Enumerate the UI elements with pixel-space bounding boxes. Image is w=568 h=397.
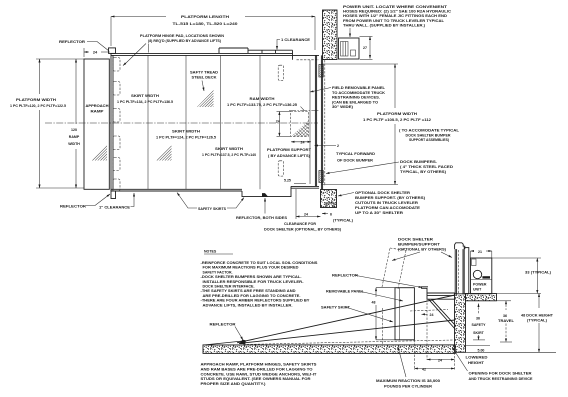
svg-text:CLEARANCE FOR: CLEARANCE FOR xyxy=(284,222,316,226)
power unit (plan) xyxy=(339,38,360,59)
dimension: 6 bottom right xyxy=(322,213,353,223)
svg-text:DOCK SHELTER INTERFACE.: DOCK SHELTER INTERFACE. xyxy=(203,285,255,289)
dock bumper beam (section) xyxy=(410,287,456,330)
label: reflector (section left) xyxy=(210,323,244,341)
svg-text:ADVANCE LIFTS, INSTALLED BY IN: ADVANCE LIFTS, INSTALLED BY INSTALLER. xyxy=(203,303,293,307)
svg-text:FOR MAXIMUM REACTIONS PLUS YOU: FOR MAXIMUM REACTIONS PLUS YOUR DESIRED xyxy=(203,266,299,270)
svg-text:CONCRETE. USE RAWL STUD WEDGE: CONCRETE. USE RAWL STUD WEDGE ANCHORS, W… xyxy=(201,372,318,376)
dimension: 27 power unit xyxy=(360,37,373,60)
note: optional dock shelter bumper support xyxy=(338,191,425,215)
svg-text:24: 24 xyxy=(304,213,308,217)
svg-text:1 CLEARANCE: 1 CLEARANCE xyxy=(281,38,311,42)
svg-text:24: 24 xyxy=(276,120,280,124)
hatch: platform support patch xyxy=(292,121,308,136)
shelter support step below wall xyxy=(326,203,334,208)
svg-text:POUNDS PER CYLINDER: POUNDS PER CYLINDER xyxy=(384,384,432,388)
label: reflector top-left xyxy=(59,39,109,51)
svg-text:LOWERED: LOWERED xyxy=(466,356,489,360)
svg-text:OF DOCK BUMPER: OF DOCK BUMPER xyxy=(337,159,373,163)
svg-text:BUMPER SUPPORT. (BY OTHERS): BUMPER SUPPORT. (BY OTHERS) xyxy=(355,196,425,200)
internal extension lines (skirt/ram widths) xyxy=(148,55,260,189)
svg-text:STUDS OR EQUIVALENT. (SEE OWNE: STUDS OR EQUIVALENT. (SEE OWNERS MANUAL … xyxy=(201,377,311,381)
platform deck outline: left edge xyxy=(111,53,113,191)
dimension: 36 travel xyxy=(497,301,515,342)
label: safty tread steel deck xyxy=(190,71,218,92)
wall section bottom (plan) xyxy=(321,190,337,208)
svg-text:PLATFORM WIDTH: PLATFORM WIDTH xyxy=(16,98,57,102)
svg-text:24: 24 xyxy=(301,141,305,145)
svg-text:CUTOUTS IN TRUCK LEVELER: CUTOUTS IN TRUCK LEVELER xyxy=(355,201,419,205)
reflector blob on ramp tip xyxy=(240,340,247,345)
note: power unit location xyxy=(343,5,452,37)
platform raised position (section) xyxy=(237,295,455,343)
svg-text:TO ACCOMMODATE TRUCK: TO ACCOMMODATE TRUCK xyxy=(332,91,385,95)
dimension text: skirt width middle xyxy=(156,130,216,140)
svg-text:42: 42 xyxy=(422,368,426,372)
svg-text:(OPTIONAL BY OTHERS): (OPTIONAL BY OTHERS) xyxy=(398,248,446,252)
svg-text:( 4" THICK STEEL FACED: ( 4" THICK STEEL FACED xyxy=(400,165,454,169)
reflector box bottom-left corner xyxy=(111,191,116,199)
label: platform support xyxy=(267,148,312,158)
svg-text:FROM POWER UNIT TO TRUCK LEVEL: FROM POWER UNIT TO TRUCK LEVELER TYPICAL xyxy=(343,19,445,23)
svg-text:OPENING FOR DOCK SHELTER: OPENING FOR DOCK SHELTER xyxy=(469,372,533,376)
label: reflector both sides xyxy=(236,198,288,220)
label: dock bumpers xyxy=(326,160,454,174)
svg-text:( TO ACCOMODATE TYPICAL: ( TO ACCOMODATE TYPICAL xyxy=(399,129,460,133)
svg-text:DOCK BUMPERS.: DOCK BUMPERS. xyxy=(400,160,437,164)
platform deck outline: bottom edge with safety skirt step xyxy=(111,186,319,196)
svg-text:36: 36 xyxy=(476,317,480,321)
dimension: 24 approach ramp width top xyxy=(84,48,110,57)
dimension: 42 below ground xyxy=(414,352,454,371)
label: dock shelter bumper/support (section) xyxy=(392,238,452,261)
dimension text: skirt width lower xyxy=(202,147,256,157)
svg-text:INSTALLER RESPONSIBLE FOR TRUC: INSTALLER RESPONSIBLE FOR TRUCK LEVELER- xyxy=(203,280,305,284)
svg-text:TYPICAL FORWARD: TYPICAL FORWARD xyxy=(336,152,375,156)
svg-text:-THERE ARE FOUR AMBER REFLECTO: -THERE ARE FOUR AMBER REFLECTORS SUPPLIE… xyxy=(201,299,311,303)
svg-text:33 (TYPICAL): 33 (TYPICAL) xyxy=(525,271,551,275)
dimension: 5.25 xyxy=(284,179,306,184)
svg-text:DOCK SHELTER BUMPER: DOCK SHELTER BUMPER xyxy=(406,133,451,137)
svg-text:AND RAM BASES ARE PRE-DRILLED: AND RAM BASES ARE PRE-DRILLED FOR LAGGIN… xyxy=(201,367,313,371)
svg-text:1" CLEARANCE: 1" CLEARANCE xyxy=(99,206,131,210)
approach ramp wedge (section) xyxy=(205,341,245,345)
label: clearance for dock shelter xyxy=(264,222,341,232)
svg-text:WIDTH: WIDTH xyxy=(68,142,80,146)
svg-text:SAFETY: SAFETY xyxy=(472,323,487,327)
svg-text:SKIRT WIDTH: SKIRT WIDTH xyxy=(172,130,201,134)
svg-text:BUMPER/SUPPORT: BUMPER/SUPPORT xyxy=(398,243,441,247)
svg-text:REFLECTOR, BOTH SIDES: REFLECTOR, BOTH SIDES xyxy=(236,216,288,220)
svg-text:1 PC PLTF=120, 2 PC PLTF=122.5: 1 PC PLTF=120, 2 PC PLTF=122.5 xyxy=(10,104,66,108)
svg-text:120: 120 xyxy=(71,128,77,132)
svg-text:REFLECTOR: REFLECTOR xyxy=(332,274,359,278)
dimension: 24 below ground xyxy=(427,359,455,363)
svg-text:REFLECTOR: REFLECTOR xyxy=(60,205,87,209)
svg-text:TL-515 L=180, TL-520 L=240: TL-515 L=180, TL-520 L=240 xyxy=(173,21,238,26)
wall (section) xyxy=(455,243,469,352)
reflector block top-left corner xyxy=(109,48,116,54)
svg-text:DOCK SHELTER: DOCK SHELTER xyxy=(398,238,434,242)
dimension: 36 safety skirt xyxy=(472,304,487,340)
removable panel dashed outline (plan) xyxy=(289,60,320,184)
svg-text:SKIRT WIDTH: SKIRT WIDTH xyxy=(131,94,160,98)
svg-text:POWER: POWER xyxy=(473,283,487,287)
dock bumper block lower (plan) xyxy=(319,171,323,183)
svg-text:30" WIDE): 30" WIDE) xyxy=(332,105,353,109)
dimension: platform length xyxy=(111,14,315,50)
svg-text:-REINFORCE CONCRETE TO SUIT LO: -REINFORCE CONCRETE TO SUIT LOCAL SOIL C… xyxy=(201,261,319,265)
svg-text:SKIRT WIDTH: SKIRT WIDTH xyxy=(215,147,244,151)
svg-text:REFLECTOR: REFLECTOR xyxy=(59,39,85,44)
dimension: 33 typical xyxy=(492,258,551,294)
NOTES block xyxy=(201,250,319,308)
svg-text:5.25: 5.25 xyxy=(284,179,291,183)
dimension: 5.00 lowered height xyxy=(466,346,491,365)
svg-text:5.00: 5.00 xyxy=(478,349,485,353)
svg-text:-DOCK SHELTER BUMPERS SHOWN AR: -DOCK SHELTER BUMPERS SHOWN ARE TYPICAL. xyxy=(201,275,302,279)
svg-text:(TYPICAL): (TYPICAL) xyxy=(527,319,547,323)
dimension: 24 vertical at support xyxy=(276,112,291,137)
svg-text:REFLECTOR: REFLECTOR xyxy=(210,323,237,327)
svg-text:6: 6 xyxy=(330,213,332,217)
svg-text:36: 36 xyxy=(503,314,507,318)
svg-text:MAXIMUM REACTION IS 38,000: MAXIMUM REACTION IS 38,000 xyxy=(376,379,440,383)
platform deck outline: top edge xyxy=(111,48,319,60)
dimension: 48 dock height xyxy=(466,294,557,353)
removable panel (section) xyxy=(395,288,414,340)
dimension: platform width left xyxy=(10,59,84,188)
svg-text:TRAVEL: TRAVEL xyxy=(498,319,515,323)
label: platform hinge pad note xyxy=(123,34,224,66)
svg-text:SAFETY SKIRTS: SAFETY SKIRTS xyxy=(198,207,227,211)
dimension: 48 panel height xyxy=(372,288,396,340)
svg-text:OPTIONAL DOCK SHELTER: OPTIONAL DOCK SHELTER xyxy=(355,191,411,195)
svg-text:PLATFORM SUPPORT: PLATFORM SUPPORT xyxy=(267,148,312,152)
dock floor slab (section) xyxy=(466,294,497,301)
label: 1 inch clearance bottom xyxy=(99,193,134,210)
label: removable panel xyxy=(326,290,403,302)
svg-text:48: 48 xyxy=(372,301,376,305)
centerline xyxy=(45,122,318,124)
svg-text:HOSES WITH 1/2" FEMALE JIC FIT: HOSES WITH 1/2" FEMALE JIC FITTINGS EACH… xyxy=(343,14,447,18)
approach ramp (plan) xyxy=(84,59,109,189)
svg-text:SUPPORT ASSEMBLIES): SUPPORT ASSEMBLIES) xyxy=(409,138,449,142)
dimension: 24 bumper projection xyxy=(422,313,434,317)
svg-text:24: 24 xyxy=(430,313,434,317)
dimension: 21 power unit width xyxy=(471,250,492,258)
hatch: safety tread sample under label xyxy=(197,90,214,107)
platform deck outline: right edge xyxy=(315,55,324,189)
label: 1 clearance top xyxy=(277,38,311,50)
svg-text:(TYPICAL): (TYPICAL) xyxy=(333,219,353,223)
svg-text:REMOVABLE PANEL: REMOVABLE PANEL xyxy=(326,290,365,294)
svg-text:1 PC PLTF=124, 2 PC PLTF=126.5: 1 PC PLTF=124, 2 PC PLTF=126.5 xyxy=(156,136,216,140)
svg-text:ARE PRE-DRILLED FOR LAGGING TO: ARE PRE-DRILLED FOR LAGGING TO CONCRETE. xyxy=(203,294,301,298)
svg-text:24: 24 xyxy=(438,359,442,363)
svg-text:SAFETY FACTOR.: SAFETY FACTOR. xyxy=(203,270,233,274)
svg-text:RAMP: RAMP xyxy=(91,110,105,114)
svg-text:UP TO A 30" SHELTER: UP TO A 30" SHELTER xyxy=(355,211,404,215)
svg-text:PLATFORM WIDTH: PLATFORM WIDTH xyxy=(377,112,418,116)
reflector mark on bottom skirt xyxy=(262,193,268,197)
svg-text:( BY ADVANCE LIFTS): ( BY ADVANCE LIFTS) xyxy=(268,154,310,158)
label: field removable panel xyxy=(310,86,386,109)
svg-text:SKIRT: SKIRT xyxy=(473,331,484,335)
svg-text:HOSES REQUIRED: (2) 1/2" SAE 1: HOSES REQUIRED: (2) 1/2" SAE 100 R2A HYD… xyxy=(343,10,452,14)
svg-text:NOTES: NOTES xyxy=(204,250,217,254)
svg-text:1 PC PLTF=133.75, 2 PC PLTF=13: 1 PC PLTF=133.75, 2 PC PLTF=136.25 xyxy=(227,103,297,107)
dimension text: ram width xyxy=(227,97,297,107)
note: approach ramp lagging xyxy=(201,363,318,387)
dock shelter dashed outline (section) xyxy=(382,248,406,289)
dimension: 24 bottom right xyxy=(296,189,321,219)
power unit (section) xyxy=(471,258,492,294)
svg-text:THRU WALL. (SUPPLIED BY INSTAL: THRU WALL. (SUPPLIED BY INSTALLER.) xyxy=(343,23,425,27)
svg-text:PLATFORM HINGE PAD, LOCATIONS: PLATFORM HINGE PAD, LOCATIONS SHOWN xyxy=(140,34,224,38)
svg-text:SAFTY TREAD: SAFTY TREAD xyxy=(190,71,218,75)
label: maximum reaction xyxy=(376,347,440,388)
hinge pads left column (dashed) xyxy=(113,58,120,192)
label: reflector (section right) xyxy=(332,274,422,288)
svg-text:TYPICAL, BY OTHERS): TYPICAL, BY OTHERS) xyxy=(400,170,446,174)
dimension: 120 ramp width xyxy=(68,59,80,188)
label: 2 typical forward of dock bumper xyxy=(315,144,376,163)
svg-text:AND TRUCK RESTRAINING DEVICE: AND TRUCK RESTRAINING DEVICE xyxy=(469,377,534,381)
hinge pads right column (dashed) xyxy=(278,65,284,176)
hatch: deck tread lower xyxy=(155,144,172,161)
label: safety skirts bottom xyxy=(177,193,244,212)
svg-text:(CAN BE ENLARGED TO: (CAN BE ENLARGED TO xyxy=(332,100,378,104)
dimension: 24 horizontal at support xyxy=(291,141,311,145)
svg-text:PROPER SIZE AND QUANTITY.): PROPER SIZE AND QUANTITY.) xyxy=(201,382,266,386)
svg-text:HEIGHT: HEIGHT xyxy=(468,361,485,365)
svg-text:PLATFORM CAN ACCOMODATE: PLATFORM CAN ACCOMODATE xyxy=(355,206,421,210)
svg-text:1 PC PLTF=134, 2 PC PLTF=136.5: 1 PC PLTF=134, 2 PC PLTF=136.5 xyxy=(117,100,173,104)
wall section top (plan) xyxy=(323,10,338,60)
dimension: platform width right xyxy=(321,64,431,185)
platform lowered position dashed (section) xyxy=(243,340,453,345)
svg-text:SAFETY SKIRT: SAFETY SKIRT xyxy=(321,306,351,310)
svg-text:48 DOCK HEIGHT: 48 DOCK HEIGHT xyxy=(521,314,554,318)
svg-text:UNIT: UNIT xyxy=(473,288,482,292)
ground slab (section) xyxy=(203,345,455,354)
svg-text:(8) REQ'D (SUPPLIED BY ADVANCE: (8) REQ'D (SUPPLIED BY ADVANCE LIFTS) xyxy=(148,39,221,43)
svg-text:-THE SAFETY SKIRTS ARE FREE ST: -THE SAFETY SKIRTS ARE FREE STANDING AND xyxy=(201,289,296,293)
svg-text:DOCK SHELTER (OPTIONAL, BY OTH: DOCK SHELTER (OPTIONAL, BY OTHERS) xyxy=(264,228,341,232)
label: reflector bottom-left xyxy=(60,194,110,209)
svg-text:APPROACH RAMP, PLATFORM HINGES: APPROACH RAMP, PLATFORM HINGES, SAFETY S… xyxy=(201,363,318,367)
svg-text:27: 27 xyxy=(363,46,367,50)
svg-text:PLATFORM LENGTH: PLATFORM LENGTH xyxy=(181,14,229,19)
dimension text: skirt width upper xyxy=(117,94,173,104)
dashed extension lines to ground xyxy=(383,299,428,370)
svg-text:FIELD REMOVABLE PANEL: FIELD REMOVABLE PANEL xyxy=(332,86,386,90)
svg-text:POWER UNIT. LOCATE WHERE CONVE: POWER UNIT. LOCATE WHERE CONVENIENT xyxy=(343,5,448,9)
svg-text:RESTRAINING DEVICES.: RESTRAINING DEVICES. xyxy=(332,96,380,100)
svg-text:RAM WIDTH: RAM WIDTH xyxy=(250,97,276,101)
platform mid position (section) xyxy=(239,320,455,343)
svg-text:STEEL DECK: STEEL DECK xyxy=(192,76,217,80)
svg-text:2: 2 xyxy=(337,144,339,148)
svg-text:APPROACH: APPROACH xyxy=(86,104,109,108)
svg-text:1 PC PLTF=137.5, 2 PC PLTF=140: 1 PC PLTF=137.5, 2 PC PLTF=140 xyxy=(202,153,256,157)
note: to accomodate dock shelter bumper xyxy=(399,129,460,143)
hatch: approach ramp tread xyxy=(91,144,107,161)
label: safety skirt (section) xyxy=(321,306,393,323)
svg-text:21: 21 xyxy=(478,250,482,254)
svg-text:RAMP: RAMP xyxy=(69,135,80,139)
svg-text:1 PC PLTF =100.5, 2 PC PLTF =: 1 PC PLTF =100.5, 2 PC PLTF =112 xyxy=(363,118,431,122)
label: opening for dock shelter xyxy=(452,347,533,381)
dock bumper block upper (plan) xyxy=(319,65,323,78)
